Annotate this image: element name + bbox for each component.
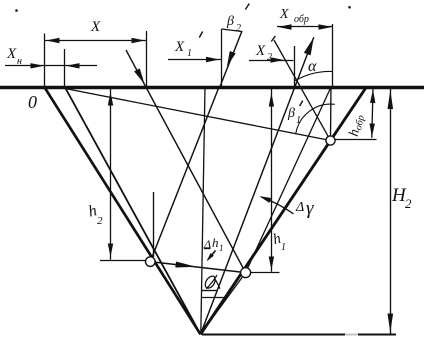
wire: line node M to surface x=331 bbox=[246, 87, 331, 273]
wire: vertical reference above node R bbox=[330, 87, 333, 137]
speck top right bbox=[348, 6, 351, 9]
bottom line from vertex bbox=[202, 334, 396, 336]
dimension X1 bbox=[168, 59, 222, 61]
delta-h1 leader arrow bbox=[208, 251, 216, 260]
extension line for Xn bbox=[64, 49, 66, 87]
dimension H2 vertical bbox=[390, 89, 392, 334]
svg-text:0: 0 bbox=[28, 92, 37, 112]
node L circle bbox=[146, 257, 156, 267]
dimension Xobr bbox=[277, 26, 333, 28]
beta1 angle arc bbox=[296, 104, 335, 133]
surface line bbox=[0, 86, 424, 89]
svg-text:2: 2 bbox=[267, 52, 272, 63]
extension line Xobr bbox=[332, 24, 334, 87]
dimension h2 vertical bbox=[110, 88, 112, 260]
phi angle tick lower bbox=[202, 297, 227, 299]
delta-gamma arc with arrow bbox=[262, 197, 294, 214]
svg-text:X: X bbox=[6, 46, 17, 62]
dimension h1 vertical bbox=[271, 88, 273, 272]
wire: center vertical axis bbox=[201, 87, 205, 334]
h_obr tick at node R level bbox=[335, 139, 376, 141]
svg-text:Δ: Δ bbox=[295, 200, 304, 215]
alpha angle arc bbox=[295, 71, 332, 80]
dimension h_obr slanted bbox=[372, 89, 373, 138]
wire: ray through surface x=300 to node R bbox=[274, 40, 331, 141]
wire: companion line vertex to node M bbox=[201, 273, 246, 335]
svg-text:1: 1 bbox=[187, 48, 192, 59]
incident beam arrow into surface at x=146 down to node M bbox=[126, 50, 246, 273]
svg-text:hобр: hобр bbox=[347, 113, 367, 138]
extension line X2 bbox=[294, 46, 296, 87]
extension line for X at origin bbox=[44, 34, 46, 88]
node M circle bbox=[241, 268, 251, 278]
svg-text:h: h bbox=[212, 235, 219, 250]
svg-text:X: X bbox=[90, 19, 101, 35]
label phi at vertex bbox=[205, 275, 220, 289]
wire: crack left face outer (O to vertex) bbox=[45, 87, 201, 334]
svg-text:X: X bbox=[174, 39, 185, 55]
svg-text:1: 1 bbox=[281, 242, 286, 253]
h1 tick at node M level bbox=[251, 272, 280, 274]
svg-text:1: 1 bbox=[219, 243, 224, 253]
wire: small vertical above node L bbox=[153, 192, 155, 257]
svg-text:2: 2 bbox=[236, 23, 241, 34]
extension line X right / beam entry bbox=[146, 31, 148, 87]
exit ray from vertex through surface with arrow up bbox=[201, 37, 314, 334]
phi angle tick upper bbox=[202, 290, 218, 292]
wire: crack left face inner (S1 to vertex) bbox=[65, 87, 201, 334]
svg-text:обр: обр bbox=[294, 14, 309, 25]
svg-text:н: н bbox=[17, 56, 22, 67]
beta2 angle chord at top bbox=[222, 29, 243, 32]
wire: refracted beta2 ray below surface to node L bbox=[150, 87, 219, 262]
wire: crack right face thick (vertex through node R to surface) bbox=[201, 87, 367, 334]
svg-text:γ: γ bbox=[306, 198, 314, 219]
h2 tick at node L level bbox=[100, 260, 146, 262]
dimension Xn bbox=[5, 65, 97, 67]
svg-text:β: β bbox=[226, 14, 234, 29]
svg-text:β: β bbox=[287, 106, 295, 121]
wire: thin line S1 to node R bbox=[65, 89, 331, 141]
ray node L to node M with arrow bbox=[150, 262, 245, 273]
node R circle bbox=[326, 136, 335, 145]
svg-text:2: 2 bbox=[405, 196, 412, 211]
svg-text:X: X bbox=[279, 7, 289, 22]
delta-h1 tick bbox=[204, 248, 211, 250]
extension line X1 bbox=[221, 29, 223, 87]
svg-text:2: 2 bbox=[97, 215, 103, 227]
dimension X2 bbox=[249, 60, 294, 62]
speck top left bbox=[15, 9, 18, 12]
svg-text:X: X bbox=[255, 43, 266, 59]
beam beta2 arrow above surface bbox=[220, 31, 242, 87]
dimension X bbox=[45, 40, 146, 42]
